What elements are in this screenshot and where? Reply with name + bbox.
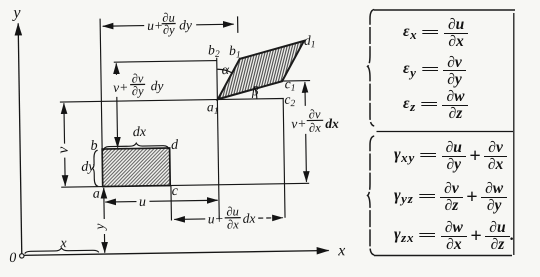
u+du/dx dx dimension <box>174 218 205 220</box>
point labels a1 b1 b2 c1 c2 d1 <box>206 33 317 117</box>
v+dv/dx dx text <box>291 107 339 135</box>
a1 vertical <box>217 58 220 219</box>
svg-text:∂y: ∂y <box>132 84 144 98</box>
svg-text:c2: c2 <box>284 92 295 110</box>
brace gamma group <box>368 136 375 255</box>
svg-text:∂v: ∂v <box>309 107 321 121</box>
brace epsilon group <box>368 10 375 127</box>
left tall vertical through b (x=102) <box>100 19 102 149</box>
a level line <box>61 183 309 187</box>
x underbrace near origin <box>25 247 99 253</box>
svg-text:b: b <box>90 139 97 154</box>
u+du/dx dx text <box>208 204 256 232</box>
origin circle <box>20 254 24 258</box>
top border <box>374 9 515 11</box>
svg-text:∂x: ∂x <box>309 121 321 135</box>
svg-text:∂y: ∂y <box>163 23 175 37</box>
equation epsilon x <box>403 18 468 48</box>
svg-text:u+: u+ <box>208 211 224 226</box>
svg-text:d1: d1 <box>304 33 316 51</box>
svg-text:dx: dx <box>243 211 256 226</box>
y dimension arrows <box>103 188 105 219</box>
v+dv/dy dy text <box>113 71 164 98</box>
equation gamma xy <box>394 141 507 171</box>
svg-text:b1: b1 <box>229 43 241 61</box>
svg-text:a: a <box>93 187 100 202</box>
b1 vertical tick at top dim <box>237 16 239 32</box>
svg-text:dy: dy <box>151 78 164 93</box>
svg-text:d: d <box>171 138 179 153</box>
svg-text:x: x <box>59 236 67 251</box>
svg-text:y: y <box>11 4 21 21</box>
svg-text:α: α <box>222 63 230 78</box>
alpha arc <box>217 69 232 73</box>
svg-text:x: x <box>337 242 345 259</box>
equation gamma zx <box>394 221 514 251</box>
u dimension <box>105 201 136 203</box>
right border <box>513 13 515 255</box>
separator line <box>377 131 514 133</box>
dy brace <box>92 150 98 186</box>
c1 level line <box>282 80 310 82</box>
rectangle abcd hatched <box>102 148 170 187</box>
beta arc <box>254 86 257 99</box>
y axis <box>18 23 22 254</box>
svg-text:dx: dx <box>325 116 339 131</box>
svg-text:b2: b2 <box>208 42 220 60</box>
x axis <box>22 251 329 256</box>
svg-text:β: β <box>251 83 259 98</box>
svg-text:v: v <box>55 146 72 153</box>
svg-text:0: 0 <box>9 251 16 266</box>
v dimension arrows <box>63 103 66 143</box>
v+dv/dx dx dimension arrows <box>304 82 306 106</box>
svg-text:v+: v+ <box>113 80 128 95</box>
v+dv/dy dy dimension arrows <box>115 63 117 74</box>
top dim text u+ du/dy dy <box>147 10 192 37</box>
svg-text:u+: u+ <box>147 18 163 33</box>
b2 level line <box>114 61 217 63</box>
equation gamma yz <box>394 182 507 212</box>
svg-text:v+: v+ <box>291 116 306 131</box>
parallelogram a1 b1 d1 c1 hatched <box>217 41 305 99</box>
equation epsilon y <box>403 56 466 86</box>
svg-text:dy: dy <box>179 17 192 32</box>
svg-text:c: c <box>172 184 179 199</box>
svg-text:∂x: ∂x <box>227 217 239 231</box>
svg-text:u: u <box>139 195 146 210</box>
svg-text:dx: dx <box>133 125 147 140</box>
top dimension line u+du/dy dy <box>103 25 144 28</box>
c extension vertical <box>170 186 173 220</box>
bottom border <box>374 255 512 257</box>
dx overbrace <box>103 143 169 151</box>
a1 level line extended to c2 <box>60 99 284 103</box>
equation epsilon z <box>403 90 468 120</box>
c2 vertical <box>283 99 285 218</box>
svg-text:y: y <box>92 224 107 232</box>
